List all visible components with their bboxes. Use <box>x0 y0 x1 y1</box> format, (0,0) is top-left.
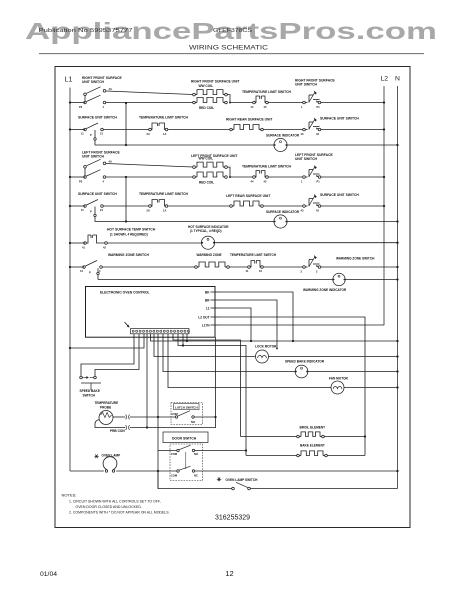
svg-text:SURFACE UNIT SWITCH: SURFACE UNIT SWITCH <box>78 115 117 119</box>
WW coil label <box>199 157 214 161</box>
svg-text:L1: L1 <box>206 306 210 310</box>
wire bake right <box>327 455 365 457</box>
svg-text:P1: P1 <box>317 180 321 184</box>
hot surface indicator label <box>188 225 229 233</box>
svg-text:RED COIL: RED COIL <box>199 106 214 110</box>
junction door NO bake vertical <box>245 449 247 451</box>
svg-text:TEMPERATURE LIMIT SWITCH: TEMPERATURE LIMIT SWITCH <box>230 253 277 257</box>
door switch upper COM label <box>171 452 178 456</box>
latch switch label <box>175 405 198 409</box>
svg-text:PRB CON: PRB CON <box>110 429 125 433</box>
wire BK pin <box>221 292 294 341</box>
electronic oven control box <box>86 287 216 338</box>
junction BR end <box>276 348 278 350</box>
Left front surface unit label <box>191 154 237 158</box>
svg-text:(1 TYPICAL, 4 REQD): (1 TYPICAL, 4 REQD) <box>190 229 222 233</box>
junction latch vertical <box>214 416 216 418</box>
junction on L2 <box>383 101 385 103</box>
wire indicator to N <box>287 144 397 146</box>
wire probe top to latch switch <box>130 416 175 418</box>
junction probe feed <box>146 426 148 428</box>
wire to unit switch <box>263 129 302 131</box>
wire to warming element <box>102 266 194 268</box>
svg-text:RED COIL: RED COIL <box>199 180 214 184</box>
svg-text:WW COIL: WW COIL <box>199 157 214 161</box>
wire to surface indicator <box>126 144 274 146</box>
wire strip t5 to lock motor <box>154 334 255 357</box>
speed bake switch label <box>80 389 100 398</box>
junction warming N <box>396 266 398 268</box>
surface unit switch (right) <box>301 91 323 109</box>
door switch lower contacts <box>177 466 195 472</box>
speed bake indicator label <box>285 360 325 364</box>
probe connector bottom <box>126 425 130 430</box>
wire to L2 <box>323 205 384 207</box>
svg-text:SURFACE UNIT SWITCH: SURFACE UNIT SWITCH <box>320 117 359 121</box>
footer page number <box>225 569 233 578</box>
svg-text:TEMPERATURE LIMIT SWITCH: TEMPERATURE LIMIT SWITCH <box>242 165 292 169</box>
door switch body box <box>170 444 203 481</box>
svg-text:WARMING ZONE: WARMING ZONE <box>197 253 222 257</box>
wire broil right <box>324 436 365 438</box>
wire L1 to switch <box>70 205 85 207</box>
node L1 label <box>65 75 73 84</box>
WW coil element <box>193 90 228 96</box>
wire to warming indicator <box>98 279 333 281</box>
connector strip P1 <box>131 329 190 334</box>
pin L1 tick <box>211 307 221 309</box>
surface indicator lamp <box>274 215 287 228</box>
svg-text:12: 12 <box>225 569 233 578</box>
svg-text:UNIT SWITCH: UNIT SWITCH <box>82 80 105 84</box>
junction L1 pin on line <box>250 340 252 342</box>
bake element <box>297 451 328 457</box>
schematic border <box>55 67 410 528</box>
svg-text:SURFACE INDICATOR: SURFACE INDICATOR <box>266 133 300 137</box>
wire warming to N <box>323 266 398 268</box>
svg-text:NOTES:: NOTES: <box>62 493 77 498</box>
junction sbi N <box>396 370 398 372</box>
surface unit switch (left) <box>81 123 103 137</box>
pin BR label <box>205 298 210 302</box>
junction on L1 row6 <box>69 266 71 268</box>
wire door upper COM left <box>158 450 177 452</box>
warming zone element <box>195 262 230 268</box>
svg-text:LOCK MOTOR: LOCK MOTOR <box>255 344 277 348</box>
oven lamp label <box>102 454 121 458</box>
svg-text:RIGHT REAR SURFACE UNIT: RIGHT REAR SURFACE UNIT <box>226 118 272 122</box>
svg-text:UNIT SWITCH: UNIT SWITCH <box>82 154 105 158</box>
svg-text:1. CIRCUIT SHOWN WITH ALL CON: 1. CIRCUIT SHOWN WITH ALL CONTROLS SET T… <box>69 500 161 504</box>
speed bake switch <box>80 376 101 390</box>
wire latch NO to vertical <box>194 416 215 418</box>
svg-text:OVEN LAMP SWITCH: OVEN LAMP SWITCH <box>226 478 259 482</box>
junction mid <box>125 144 127 146</box>
junction door feed at latch line <box>157 416 159 418</box>
temperature limit switch label <box>139 115 189 119</box>
surface unit switch (right) <box>301 166 323 184</box>
wire fan motor to N <box>344 387 397 389</box>
temperature limit switch label <box>242 90 292 94</box>
junction fan N <box>396 386 398 388</box>
hot surface indicator lamp <box>201 236 214 249</box>
svg-text:ELECTRONIC OVEN CONTROL: ELECTRONIC OVEN CONTROL <box>100 291 150 295</box>
pin L2 OUT label <box>198 315 209 319</box>
Right rear surface unit label <box>226 118 272 122</box>
junction on L2 <box>383 176 385 178</box>
svg-text:LATCH SWITCH: LATCH SWITCH <box>175 405 198 409</box>
oven lamp <box>103 457 117 473</box>
latch switch box <box>171 403 203 425</box>
svg-text:FAN MOTOR: FAN MOTOR <box>329 377 349 381</box>
door switch link <box>185 452 187 469</box>
door switch lower NC label <box>194 474 198 478</box>
pin L2 OUT tick <box>211 316 221 318</box>
wire door upper NO right <box>195 450 246 452</box>
svg-text:DOOR SWITCH: DOOR SWITCH <box>172 436 197 440</box>
pin BK label <box>205 290 210 294</box>
Left front surface unit switch (right) label <box>295 153 333 161</box>
svg-text:UNIT SWITCH: UNIT SWITCH <box>295 157 318 161</box>
wire strip t9 to broil feed <box>173 334 241 437</box>
svg-text:BR: BR <box>205 298 210 302</box>
Right front surface unit switch (right) label <box>295 79 336 87</box>
second pole to indicator <box>94 207 126 222</box>
speed bake indicator lamp <box>295 365 308 378</box>
wire upper pole to WW coil <box>106 91 193 95</box>
wire strip t7 to speed bake indicator <box>163 334 295 372</box>
svg-text:4A: 4A <box>109 87 112 91</box>
svg-text:COM: COM <box>171 452 178 456</box>
N bus wire <box>397 86 399 489</box>
svg-text:TEMPERATURE LIMIT SWITCH: TEMPERATURE LIMIT SWITCH <box>139 192 189 196</box>
junction t12 <box>186 340 188 342</box>
svg-text:2. COMPONENTS WITH * DO NOT: 2. COMPONENTS WITH * DO NOT APPEAR ON AL… <box>69 510 170 514</box>
wire probe bottom to EOC corner <box>130 337 216 427</box>
surface unit switch (left) <box>81 200 103 214</box>
wire strip t1 to speed bake sw <box>81 334 134 376</box>
junction mid <box>125 220 127 222</box>
latch switch COM label <box>172 412 179 416</box>
broil element <box>297 432 325 438</box>
oven lamp switch <box>232 482 251 490</box>
wire broil left <box>241 436 297 438</box>
wire to warming switch right <box>263 266 302 268</box>
wire L1 to warming switch <box>70 266 84 268</box>
svg-text:P2: P2 <box>79 180 83 184</box>
title WIRING SCHEMATIC <box>189 45 268 52</box>
note 1 <box>69 500 161 504</box>
row6 temperature limit switch <box>246 261 264 274</box>
svg-text:WARMING ZONE INDICATOR: WARMING ZONE INDICATOR <box>303 288 347 292</box>
wire lamp switch to N <box>250 488 397 490</box>
svg-text:1A: 1A <box>163 132 166 136</box>
temperature probe label <box>95 401 119 410</box>
svg-text:WW COIL: WW COIL <box>199 84 214 88</box>
wire strip t2 to speed bake sw <box>95 334 139 376</box>
wire strip t10 to bake feed <box>178 334 246 456</box>
watermark AppliancePartsPros.com <box>25 18 437 44</box>
electronic oven control label <box>100 291 150 295</box>
door switch upper contacts <box>177 445 195 451</box>
wire to temp limit switch <box>230 176 253 178</box>
RED coil label <box>199 106 214 110</box>
temperature probe <box>99 411 113 425</box>
svg-text:BROIL ELEMENT: BROIL ELEMENT <box>300 425 326 429</box>
svg-text:316255329: 316255329 <box>215 514 250 521</box>
note 2 <box>69 510 170 514</box>
svg-text:UNIT SWITCH: UNIT SWITCH <box>295 83 318 87</box>
junction on L1 row Left <box>69 176 71 178</box>
svg-text:GLEF378CS: GLEF378CS <box>213 28 253 34</box>
svg-text:NO: NO <box>194 452 198 456</box>
warming zone switch (right) <box>301 256 324 274</box>
probe lead bottom <box>95 420 125 428</box>
wire L2 IN pin (to L2 bus) <box>221 324 385 327</box>
junction door feed at lamp line <box>157 470 159 472</box>
svg-text:L1: L1 <box>65 75 73 84</box>
L2 bus wire <box>383 86 385 325</box>
wire L1 to switch <box>70 129 85 131</box>
svg-text:P: P <box>90 210 92 214</box>
wire L1 to switch <box>70 176 85 178</box>
svg-text:2A: 2A <box>147 132 150 136</box>
surface indicator label <box>266 210 300 214</box>
tie wire to row above <box>125 103 127 145</box>
wire lamp to door switch <box>116 470 177 472</box>
header rule <box>39 53 424 55</box>
junction tie top <box>125 102 127 104</box>
lock motor label <box>255 344 277 348</box>
svg-text:NO: NO <box>191 420 195 424</box>
node L2 label <box>381 76 389 83</box>
wire bake left <box>246 455 297 457</box>
svg-text:SURFACE UNIT SWITCH: SURFACE UNIT SWITCH <box>78 192 117 196</box>
wire L2 OUT pin <box>221 317 366 456</box>
wire strip t3 to L1 <box>70 334 144 348</box>
door switch lower COM label <box>171 474 178 478</box>
junction on L1 <box>69 205 71 207</box>
wire to surface indicator <box>126 221 274 223</box>
PRB CON label <box>110 429 125 433</box>
surface unit switch label <box>78 192 117 196</box>
broil element label <box>300 425 326 429</box>
temperature limit switch <box>147 200 168 213</box>
pin L2 IN label <box>202 323 210 327</box>
svg-text:RIGHT FRONT SURFACE UNIT: RIGHT FRONT SURFACE UNIT <box>191 79 239 83</box>
tie wire to row above <box>125 177 127 222</box>
junction on L1 row Right <box>69 101 71 103</box>
svg-text:L2 OUT: L2 OUT <box>198 315 209 319</box>
latch switch title box <box>174 404 200 410</box>
svg-text:SWITCH: SWITCH <box>83 393 96 397</box>
junction on N <box>396 144 398 146</box>
junction on L2 <box>383 128 385 130</box>
RED coil label <box>199 180 214 184</box>
pin BK tick <box>211 291 221 293</box>
wire to unit switch <box>268 176 302 178</box>
svg-text:P1: P1 <box>317 105 321 109</box>
svg-text:P: P <box>89 271 91 275</box>
oven lamp switch label <box>226 478 259 482</box>
surface unit switch (right) label <box>320 193 359 197</box>
warming zone element label <box>197 253 222 257</box>
svg-text:N: N <box>395 76 400 83</box>
svg-text:TEMPERATURE LIMIT SWITCH: TEMPERATURE LIMIT SWITCH <box>242 90 292 94</box>
temperature limit switch label <box>139 192 189 196</box>
junction lamp rung N <box>396 470 398 472</box>
svg-text:4A: 4A <box>109 160 112 164</box>
svg-text:WARMING ZONE SWITCH: WARMING ZONE SWITCH <box>108 253 149 257</box>
row6 temperature limit switch label <box>230 253 277 257</box>
wire strip t11 stub <box>182 334 184 346</box>
wire to unit switch <box>268 102 302 104</box>
surface unit switch label <box>78 115 117 119</box>
lock motor <box>256 350 269 363</box>
wire lower pole to RED coil <box>106 176 193 178</box>
warming zone switch (left) <box>80 261 102 275</box>
wire to unit switch <box>263 205 302 207</box>
footer date <box>40 571 57 578</box>
svg-text:NC: NC <box>194 474 198 478</box>
Right rear surface unit element <box>230 125 264 131</box>
svg-text:BAKE ELEMENT: BAKE ELEMENT <box>300 443 325 447</box>
hot surface temp switch label <box>107 228 156 237</box>
svg-text:HOT SURFACE TEMP SWITCH: HOT SURFACE TEMP SWITCH <box>107 228 156 232</box>
svg-text:TEMPERATURE: TEMPERATURE <box>95 401 119 405</box>
WW coil element <box>193 162 228 168</box>
temperature limit switch <box>251 96 269 109</box>
svg-text:BK: BK <box>205 290 210 294</box>
warming zone switch label (right) <box>336 257 375 261</box>
oven lamp switch asterisk <box>217 477 221 481</box>
Right front surface unit switch label <box>82 76 123 84</box>
pin BR tick <box>211 299 221 301</box>
temperature limit switch label <box>242 165 292 169</box>
wire L1 bottom rung <box>70 470 104 472</box>
Left front surface unit switch (double pole) <box>79 159 112 183</box>
wire to temp limit <box>103 129 148 131</box>
junction on N row5 <box>396 242 398 244</box>
wire element to limit switch <box>229 266 247 268</box>
surface indicator label <box>266 133 300 137</box>
junction BK on line <box>292 340 294 342</box>
bake element label <box>300 443 325 447</box>
warming zone indicator lamp <box>333 273 346 285</box>
wire hot surface indicator to N <box>215 242 398 244</box>
svg-text:TEMPERATURE LIMIT SWITCH: TEMPERATURE LIMIT SWITCH <box>139 115 189 119</box>
svg-text:P2: P2 <box>79 105 83 109</box>
svg-text:SURFACE UNIT SWITCH: SURFACE UNIT SWITCH <box>320 193 359 197</box>
warming zone switch label (left) <box>108 253 149 257</box>
Left rear surface unit label <box>226 194 270 198</box>
junction tie top <box>125 176 127 178</box>
wire to element <box>168 129 230 131</box>
connector strip arrow <box>125 322 130 327</box>
latch switch contacts <box>175 411 194 418</box>
svg-text:SURFACE INDICATOR: SURFACE INDICATOR <box>266 210 300 214</box>
wire BR pin <box>221 300 278 349</box>
wire branch to lamp switch <box>158 471 232 489</box>
svg-text:OVEN DOOR CLOSED AND UNLOCKED.: OVEN DOOR CLOSED AND UNLOCKED. <box>76 505 142 509</box>
junction lock N <box>396 355 398 357</box>
surface indicator lamp <box>274 138 287 151</box>
svg-text:WIRING SCHEMATIC: WIRING SCHEMATIC <box>189 45 268 52</box>
part number <box>215 514 250 521</box>
wire coil merge <box>227 167 231 178</box>
junction on L2 <box>383 205 385 207</box>
wire warming indicator to N <box>345 279 397 281</box>
RED coil element <box>193 98 228 104</box>
door switch title box <box>163 432 208 443</box>
RED coil element <box>193 172 228 178</box>
node N label <box>395 76 400 83</box>
wire L1 to switch <box>70 102 85 104</box>
svg-text:01/04: 01/04 <box>40 571 57 578</box>
warming pole to indicator line <box>97 268 99 279</box>
svg-text:LEFT REAR SURFACE UNIT: LEFT REAR SURFACE UNIT <box>226 194 270 198</box>
hot surface temp switch <box>82 235 107 250</box>
svg-text:Publication No 5995375777: Publication No 5995375777 <box>39 28 133 34</box>
junction warming ind N <box>396 278 398 280</box>
wire strip t12 stub <box>186 334 188 341</box>
wire lock motor to N <box>269 356 398 358</box>
junction on L1 <box>69 128 71 130</box>
door switch upper NO label <box>194 452 198 456</box>
wire to element <box>168 205 230 207</box>
L1 bus wire <box>69 88 71 472</box>
svg-text:SPEED BAKE INDICATOR: SPEED BAKE INDICATOR <box>285 360 325 364</box>
svg-text:COM: COM <box>171 474 178 478</box>
wire upper pole to WW coil <box>106 164 193 168</box>
oven lamp asterisk <box>94 454 98 458</box>
wire to hot surface indicator <box>107 242 201 244</box>
notes heading <box>62 493 77 498</box>
Right front surface unit switch (double pole) <box>79 87 112 109</box>
wire L1 pin <box>221 308 252 341</box>
fan motor <box>331 381 344 394</box>
warming zone indicator label <box>303 288 347 292</box>
Left rear surface unit element <box>230 201 264 207</box>
junction 341 N <box>396 340 398 342</box>
Right front surface unit label <box>191 79 239 83</box>
surface unit switch (right) <box>301 195 324 213</box>
temperature limit switch <box>147 123 168 136</box>
junction on N <box>396 220 398 222</box>
fan motor label <box>329 377 349 381</box>
wire strip t13 to probe line <box>146 334 148 428</box>
wire lower pole to RED coil <box>106 102 193 104</box>
svg-text:COM: COM <box>172 412 179 416</box>
wire to L2 <box>323 176 384 178</box>
surface unit switch (right) label <box>320 117 359 121</box>
wire indicator to N <box>287 221 397 223</box>
svg-text:L2 IN: L2 IN <box>202 323 210 327</box>
model number text <box>213 28 253 34</box>
wire to temp limit switch <box>230 102 253 104</box>
probe lead top <box>113 416 125 418</box>
wire to L2 <box>323 129 384 131</box>
junction t11 <box>182 344 184 346</box>
svg-text:2A: 2A <box>147 209 150 213</box>
pin L1 label <box>206 306 210 310</box>
wire to L2 <box>323 102 384 104</box>
wire to temp limit <box>103 205 148 207</box>
svg-text:L2: L2 <box>381 76 389 83</box>
svg-text:P: P <box>90 133 92 137</box>
svg-text:(1 SHOWN, 4 REQUIRED): (1 SHOWN, 4 REQUIRED) <box>110 233 148 237</box>
wire strip t6 long drop (door feed) <box>157 334 159 489</box>
